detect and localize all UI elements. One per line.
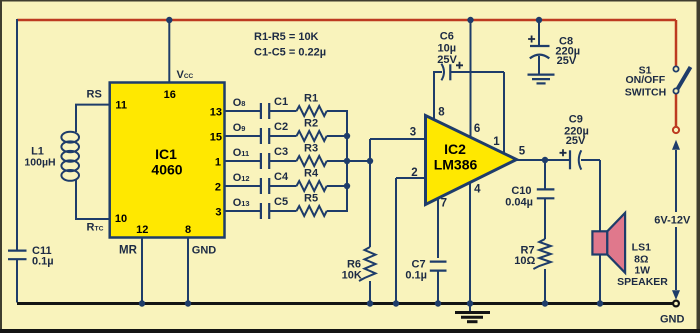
svg-text:25V: 25V bbox=[566, 135, 586, 147]
svg-text:16: 16 bbox=[164, 89, 176, 101]
svg-text:O8: O8 bbox=[233, 97, 246, 109]
svg-text:C5: C5 bbox=[274, 196, 288, 208]
svg-text:IC1: IC1 bbox=[155, 146, 177, 162]
svg-text:0.1µ: 0.1µ bbox=[405, 269, 427, 281]
svg-text:2: 2 bbox=[411, 167, 417, 179]
svg-text:O12: O12 bbox=[233, 172, 250, 184]
svg-text:4: 4 bbox=[474, 183, 481, 195]
svg-text:C2: C2 bbox=[274, 121, 288, 133]
svg-text:GND: GND bbox=[660, 314, 685, 326]
svg-text:3: 3 bbox=[410, 127, 416, 139]
svg-text:0.04µ: 0.04µ bbox=[505, 196, 533, 208]
svg-text:L1: L1 bbox=[31, 146, 44, 158]
svg-text:R4: R4 bbox=[304, 168, 319, 180]
svg-text:IC2: IC2 bbox=[444, 141, 466, 157]
svg-text:LM386: LM386 bbox=[434, 157, 478, 173]
svg-text:25V: 25V bbox=[557, 55, 577, 67]
svg-text:ON/OFF: ON/OFF bbox=[625, 74, 665, 86]
svg-text:C3: C3 bbox=[274, 146, 288, 158]
svg-text:12: 12 bbox=[136, 224, 148, 236]
svg-text:C1: C1 bbox=[274, 96, 288, 108]
svg-text:10µ: 10µ bbox=[438, 42, 457, 54]
svg-text:C9: C9 bbox=[569, 114, 583, 126]
svg-text:1: 1 bbox=[215, 157, 221, 169]
svg-text:10Ω: 10Ω bbox=[514, 255, 535, 267]
svg-text:C6: C6 bbox=[440, 31, 454, 43]
svg-text:LS1: LS1 bbox=[632, 241, 651, 253]
svg-text:8: 8 bbox=[185, 224, 191, 236]
svg-text:R3: R3 bbox=[304, 143, 318, 155]
svg-text:1: 1 bbox=[493, 136, 500, 148]
svg-text:0.1µ: 0.1µ bbox=[32, 255, 54, 267]
svg-text:R2: R2 bbox=[304, 118, 318, 130]
svg-text:10: 10 bbox=[115, 213, 127, 225]
svg-text:R5: R5 bbox=[304, 193, 318, 205]
svg-text:2: 2 bbox=[215, 182, 221, 194]
svg-text:R1: R1 bbox=[304, 93, 318, 105]
svg-text:25V: 25V bbox=[437, 54, 457, 66]
svg-text:11: 11 bbox=[115, 100, 127, 112]
svg-text:O13: O13 bbox=[233, 197, 250, 209]
svg-text:R1-R5 = 10K: R1-R5 = 10K bbox=[254, 31, 319, 43]
svg-text:10K: 10K bbox=[342, 269, 362, 281]
svg-text:3: 3 bbox=[215, 207, 221, 219]
svg-text:SWITCH: SWITCH bbox=[625, 87, 666, 99]
svg-text:100µH: 100µH bbox=[24, 157, 55, 169]
svg-text:C10: C10 bbox=[511, 185, 531, 197]
svg-text:8: 8 bbox=[438, 106, 445, 118]
svg-text:5: 5 bbox=[519, 146, 526, 158]
svg-text:O9: O9 bbox=[233, 122, 246, 134]
svg-text:6: 6 bbox=[474, 123, 480, 135]
svg-text:15: 15 bbox=[210, 132, 222, 144]
svg-text:MR: MR bbox=[119, 245, 138, 257]
svg-text:GND: GND bbox=[192, 245, 217, 257]
svg-text:O11: O11 bbox=[233, 147, 250, 159]
svg-text:13: 13 bbox=[210, 107, 222, 119]
svg-text:1W: 1W bbox=[634, 264, 650, 276]
svg-text:7: 7 bbox=[441, 198, 447, 210]
svg-text:C1-C5 = 0.22µ: C1-C5 = 0.22µ bbox=[254, 47, 326, 59]
svg-text:SPEAKER: SPEAKER bbox=[617, 276, 668, 288]
svg-text:4060: 4060 bbox=[151, 162, 182, 178]
svg-text:6V-12V: 6V-12V bbox=[654, 214, 691, 226]
svg-text:C4: C4 bbox=[274, 171, 289, 183]
svg-text:RS: RS bbox=[87, 88, 102, 100]
